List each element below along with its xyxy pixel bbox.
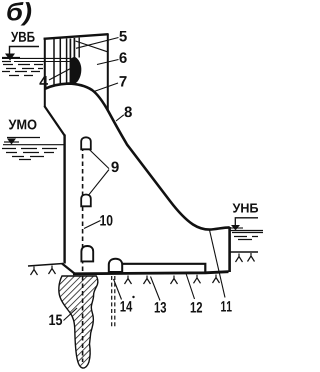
UNB leader bbox=[235, 218, 258, 226]
UMO water surface line bbox=[3, 144, 65, 146]
label 13 bbox=[155, 302, 166, 313]
label UNB bbox=[233, 204, 259, 213]
figure letter b) bbox=[7, 2, 31, 26]
spillway crest and downstream face bbox=[45, 84, 230, 230]
UMO water level mark bbox=[7, 139, 16, 145]
label 15 bbox=[49, 315, 62, 325]
leader 7 bbox=[94, 83, 118, 92]
intake opening 9b bbox=[81, 195, 91, 207]
apron slab top bbox=[122, 264, 205, 272]
grout curtain blob bbox=[59, 276, 98, 368]
dam tower right edge bbox=[107, 34, 109, 110]
UMO water dashes bbox=[2, 149, 57, 160]
label 5 bbox=[119, 31, 126, 41]
leader 14 bbox=[114, 279, 122, 300]
leader 10 bbox=[84, 221, 101, 229]
dam upstream face lower bbox=[63, 135, 65, 264]
downstream toe face bbox=[228, 227, 231, 272]
UNB water surface line bbox=[230, 230, 264, 232]
label UVB bbox=[11, 32, 35, 42]
label 4 bbox=[39, 76, 48, 87]
foundation line left bbox=[28, 264, 63, 267]
UVB leader bbox=[10, 47, 40, 55]
UMO leader line bbox=[7, 137, 40, 139]
intake opening 9a bbox=[81, 137, 91, 149]
gate slot line 6 bbox=[78, 38, 80, 58]
leader 15 bbox=[64, 308, 78, 321]
label 11 bbox=[221, 301, 232, 311]
UVB water surface line bbox=[2, 57, 70, 59]
label UMO bbox=[9, 120, 37, 130]
leader 13 bbox=[151, 277, 161, 301]
label 7 bbox=[120, 76, 127, 86]
foundation line right bbox=[230, 251, 258, 253]
label 14 bbox=[121, 301, 133, 311]
leader 6 bbox=[97, 60, 119, 65]
dam upstream face batter bbox=[44, 106, 64, 136]
grout curtain dashed axis bbox=[82, 276, 84, 362]
UNB water level mark bbox=[231, 225, 240, 230]
leader 4 bbox=[49, 69, 71, 81]
gate slot line 4 bbox=[69, 39, 71, 85]
dam tower top edge bbox=[44, 34, 109, 39]
leader 11 bbox=[210, 230, 226, 298]
gate slot line 3 bbox=[66, 39, 68, 85]
gate slot line 5 bbox=[73, 38, 75, 58]
toe gallery opening bbox=[109, 259, 122, 272]
label 12 bbox=[191, 302, 202, 312]
pier inner diagonal bbox=[76, 41, 108, 52]
UVB water level mark bbox=[5, 54, 15, 61]
label 9 bbox=[111, 162, 118, 173]
intake shaft dashed axis bbox=[82, 139, 84, 272]
leader 8 bbox=[116, 115, 124, 121]
heel diagonal bbox=[62, 264, 75, 274]
leader 9 upper bbox=[89, 149, 109, 169]
leader 9 lower bbox=[89, 170, 109, 195]
dam upstream face upper bbox=[44, 38, 46, 107]
UVB water dashes bbox=[2, 62, 43, 76]
label 6 bbox=[119, 52, 126, 63]
drainage wells dashed bbox=[111, 276, 113, 327]
dam base line bbox=[73, 272, 229, 274]
label 8 bbox=[124, 107, 131, 118]
leader 12 bbox=[186, 274, 195, 300]
ground hatch marks bbox=[31, 253, 255, 284]
leader 5 bbox=[76, 38, 119, 49]
label 14 dot bbox=[132, 296, 134, 298]
gate slot line 2 bbox=[59, 39, 61, 86]
UNB water dashes bbox=[232, 233, 263, 240]
label 10 bbox=[100, 215, 112, 226]
gate (black) bbox=[70, 57, 81, 84]
gate slot line 1 bbox=[53, 39, 55, 87]
gallery opening bbox=[81, 246, 93, 261]
